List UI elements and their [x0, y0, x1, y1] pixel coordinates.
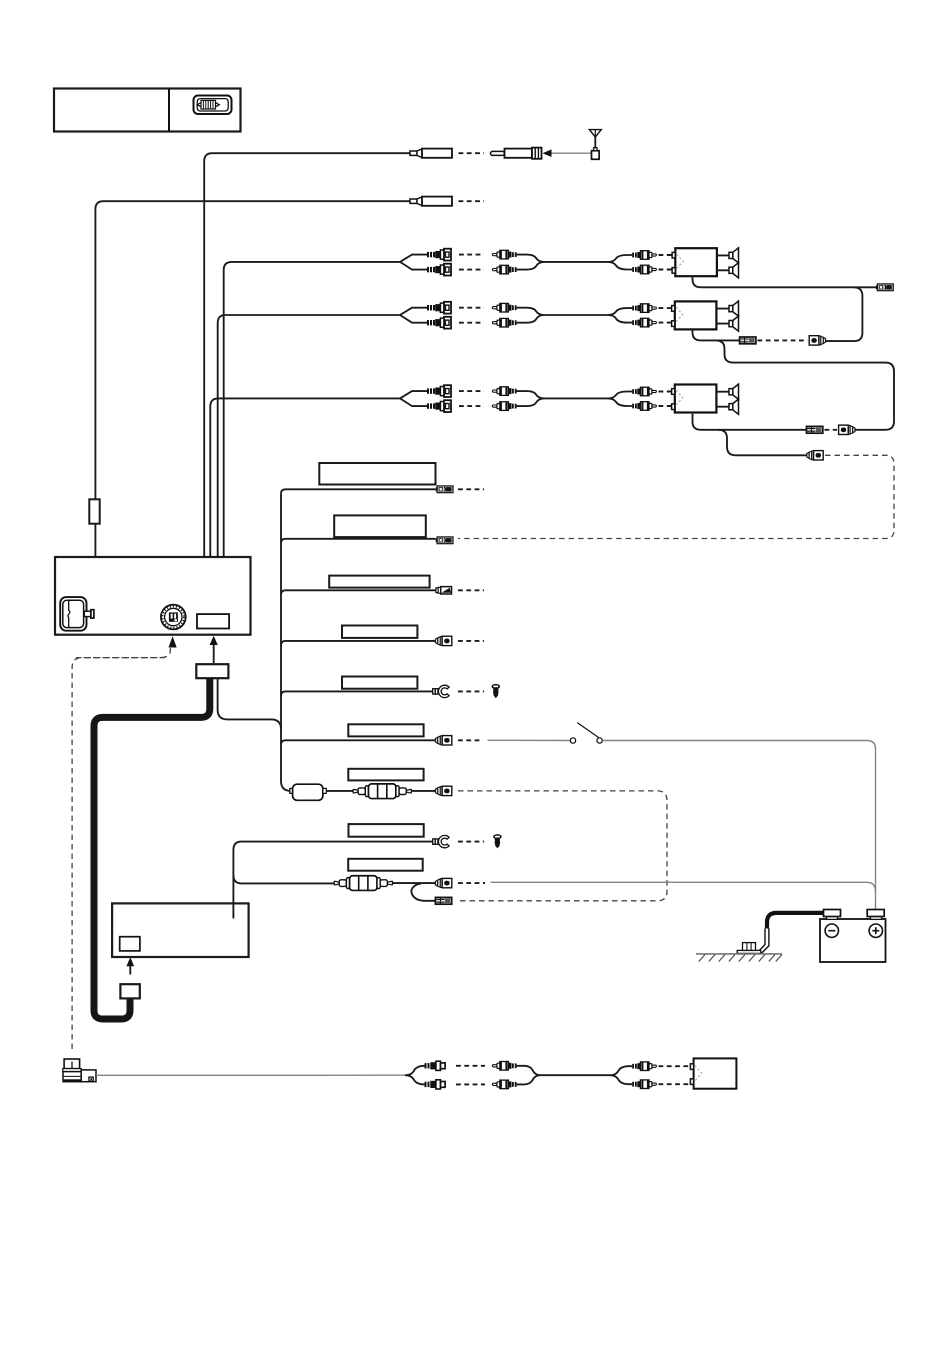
arrow to antenna plug — [543, 149, 552, 157]
power connector body — [196, 664, 228, 678]
speaker SP3a — [729, 384, 739, 399]
ring terminal R8 — [433, 835, 449, 847]
wire: switch to battery positive — [603, 741, 876, 910]
wire: antenna lead 2 to head unit — [95, 201, 410, 572]
ring terminal R5 — [433, 685, 449, 697]
cord connector body at hideaway — [120, 984, 139, 998]
connector pair A2-A3 : socket — [839, 425, 855, 434]
speaker SP1a — [729, 248, 739, 263]
wire: row3 Y merge and split — [517, 391, 633, 406]
DIN plug (changer cord) — [63, 1059, 96, 1082]
dashes R1 — [458, 488, 484, 490]
arrow: power connector to head unit — [210, 636, 218, 663]
RCA jack pair L2 — [427, 302, 451, 314]
connector R4 — [435, 636, 451, 645]
label box R8 — [349, 824, 424, 837]
speaker wires A2 — [716, 309, 729, 324]
ground symbol — [696, 954, 782, 962]
wire: changer cord — [96, 1074, 405, 1076]
RCA jack pair L3 — [427, 385, 451, 397]
battery — [820, 910, 886, 963]
wire: A3 lead branch down — [719, 430, 807, 456]
RCA row 1 : Y split left — [400, 255, 427, 270]
fuse holder R7 — [353, 784, 411, 799]
wire R1 — [281, 489, 436, 494]
dashes R6 — [458, 739, 481, 741]
RCA row 1 : wire from head unit — [224, 262, 400, 574]
RCA plug pair bottom right — [632, 1062, 656, 1071]
dashes R5 — [458, 690, 484, 692]
wire R7 from trunk — [281, 781, 291, 791]
wire: row2 Y merge and split — [517, 308, 633, 323]
wire R7 relay to fuse — [326, 790, 353, 792]
amplifier A2 — [672, 301, 717, 329]
speaker SP2a — [729, 301, 739, 316]
relay box R7 — [290, 784, 327, 800]
connector R7 — [435, 786, 451, 795]
wire R6 — [281, 740, 435, 745]
legend box — [54, 89, 241, 132]
wire: A3 power lead — [693, 414, 807, 430]
amplifier A3 — [672, 385, 717, 413]
RCA jack pair L1 — [427, 249, 451, 261]
wire: A1 lead branch down to A2 lead — [826, 287, 862, 341]
battery negative terminal — [825, 924, 838, 937]
wire R4 — [281, 641, 435, 646]
connector R3 (spade) — [436, 587, 452, 594]
RCA row 3 : Y split left — [400, 391, 427, 406]
wire: antenna lead 1 to head unit — [204, 153, 410, 574]
label box R1 — [319, 463, 435, 485]
dashes row2 — [459, 308, 484, 323]
speaker SP2b — [729, 316, 739, 331]
label box R7 — [348, 769, 423, 781]
dashes row3 — [459, 391, 484, 406]
hideaway unit socket — [120, 937, 140, 951]
RCA plug pair mid row1 — [492, 250, 516, 259]
head unit — [55, 557, 251, 635]
ground bolt — [737, 943, 761, 954]
wire: R6 to switch — [488, 739, 570, 741]
dashes J2 — [459, 200, 485, 202]
wire R2 — [281, 539, 436, 544]
car antenna plug — [491, 148, 542, 159]
connector R2 — [436, 537, 453, 544]
head unit DIN socket — [161, 605, 186, 630]
wire R8 ground lead — [233, 842, 432, 850]
wire: A2 lead branch down and right — [716, 340, 894, 429]
connector A3 remote — [807, 451, 823, 460]
car antenna symbol — [589, 130, 601, 160]
RCA plug pair right row2 — [632, 304, 656, 313]
antenna jack J1 — [410, 149, 452, 158]
dashed path: A3 remote to R2 lead — [458, 455, 894, 538]
wire: row1 Y merge and split — [517, 255, 633, 270]
connector R6 — [435, 736, 451, 745]
dashes R9 main — [458, 882, 485, 884]
battery positive terminal — [869, 924, 882, 937]
label box R2 — [334, 515, 426, 537]
RCA row 3 : wire from head unit — [210, 398, 400, 574]
RCA plug pair right row1 — [632, 251, 656, 260]
speaker SP3b — [729, 399, 739, 414]
dashes bottom row left — [456, 1066, 485, 1085]
wire: hideaway pigtail vertical — [232, 850, 234, 919]
RCA plug pair mid row2 — [492, 303, 516, 312]
speaker wires A1 — [717, 255, 729, 270]
dashes R4 — [458, 640, 484, 642]
ground strap — [758, 929, 769, 954]
dashes row3 right — [659, 392, 674, 407]
legend fuse icon — [194, 96, 232, 115]
connector pair A2-A3 : blade — [807, 426, 823, 433]
wire R9 branch to sub lead connector — [411, 883, 435, 900]
dashed path: R7 to R9 sub lead — [458, 791, 668, 901]
wire: bottom row Y merge and split — [517, 1066, 633, 1085]
dashes row2 right — [659, 308, 674, 323]
connector pair A1-A2 : socket — [809, 336, 825, 345]
fuse clip connector A1 — [876, 284, 893, 291]
inline antenna booster — [89, 499, 99, 523]
wire: R9 to battery positive — [491, 882, 876, 891]
speaker SP1b — [729, 263, 739, 278]
connector R9 sub (blade) — [435, 897, 451, 904]
head unit rear connector icon — [60, 597, 94, 631]
wire R9 battery lead — [233, 875, 334, 883]
dashes J1 — [459, 152, 485, 154]
trunk: harness vertical — [280, 494, 282, 781]
dashes bottom row right — [659, 1066, 692, 1084]
screw R5 — [492, 684, 501, 698]
wire R5 — [281, 691, 433, 696]
wire: remote lead from power connector to trunk — [218, 678, 281, 729]
screw R8 — [493, 834, 502, 848]
label box R4 — [342, 626, 417, 638]
dashes row1 right — [659, 255, 674, 270]
wire R3 — [281, 590, 436, 595]
RCA jack pair bottom left — [425, 1061, 446, 1070]
hideaway unit — [112, 903, 249, 957]
connector R1 — [436, 486, 453, 493]
RCA plug pair bottom mid — [492, 1062, 516, 1071]
fuse holder R9 — [334, 876, 392, 891]
antenna jack J2 — [410, 197, 452, 206]
dashes R8 — [458, 841, 484, 843]
head unit power socket — [197, 614, 229, 628]
dash A2-A3 — [825, 429, 838, 431]
wire R7 fuse to connector — [411, 790, 435, 792]
RCA plug pair right row3 — [632, 387, 656, 396]
RCA row 2 : Y split left — [400, 308, 427, 323]
wire: A2 power lead — [693, 330, 740, 341]
wire: antenna feeder — [552, 152, 592, 154]
switch — [570, 723, 602, 744]
dash A1-A2 — [758, 339, 808, 341]
ground cable from battery negative — [767, 913, 824, 929]
amplifier A4 (CD changer) — [690, 1058, 736, 1088]
arrow: cord connector to hideaway socket — [126, 957, 134, 974]
label box R9 — [348, 859, 423, 871]
dashes R3 — [458, 589, 484, 591]
label box R5 — [342, 677, 417, 689]
thick power cord — [94, 678, 210, 1019]
connector R9 main — [435, 878, 451, 887]
amplifier A1 — [672, 248, 717, 276]
dashes row1 — [459, 255, 484, 270]
connector pair A1-A2 : blade — [740, 337, 756, 344]
bottom row Y split left — [405, 1066, 425, 1085]
dashed cord: hideaway to DIN plug — [72, 658, 165, 1052]
RCA row 2 : wire from head unit — [218, 315, 400, 574]
label box R6 — [348, 724, 423, 736]
wire R9 fuse to connector — [392, 882, 435, 884]
speaker wires A3 — [716, 392, 729, 407]
wire: A1 power lead — [693, 276, 877, 287]
label box R3 — [329, 576, 429, 588]
RCA plug pair mid row3 — [492, 387, 516, 396]
dashed arrow: changer cord to DIN socket — [76, 636, 177, 657]
